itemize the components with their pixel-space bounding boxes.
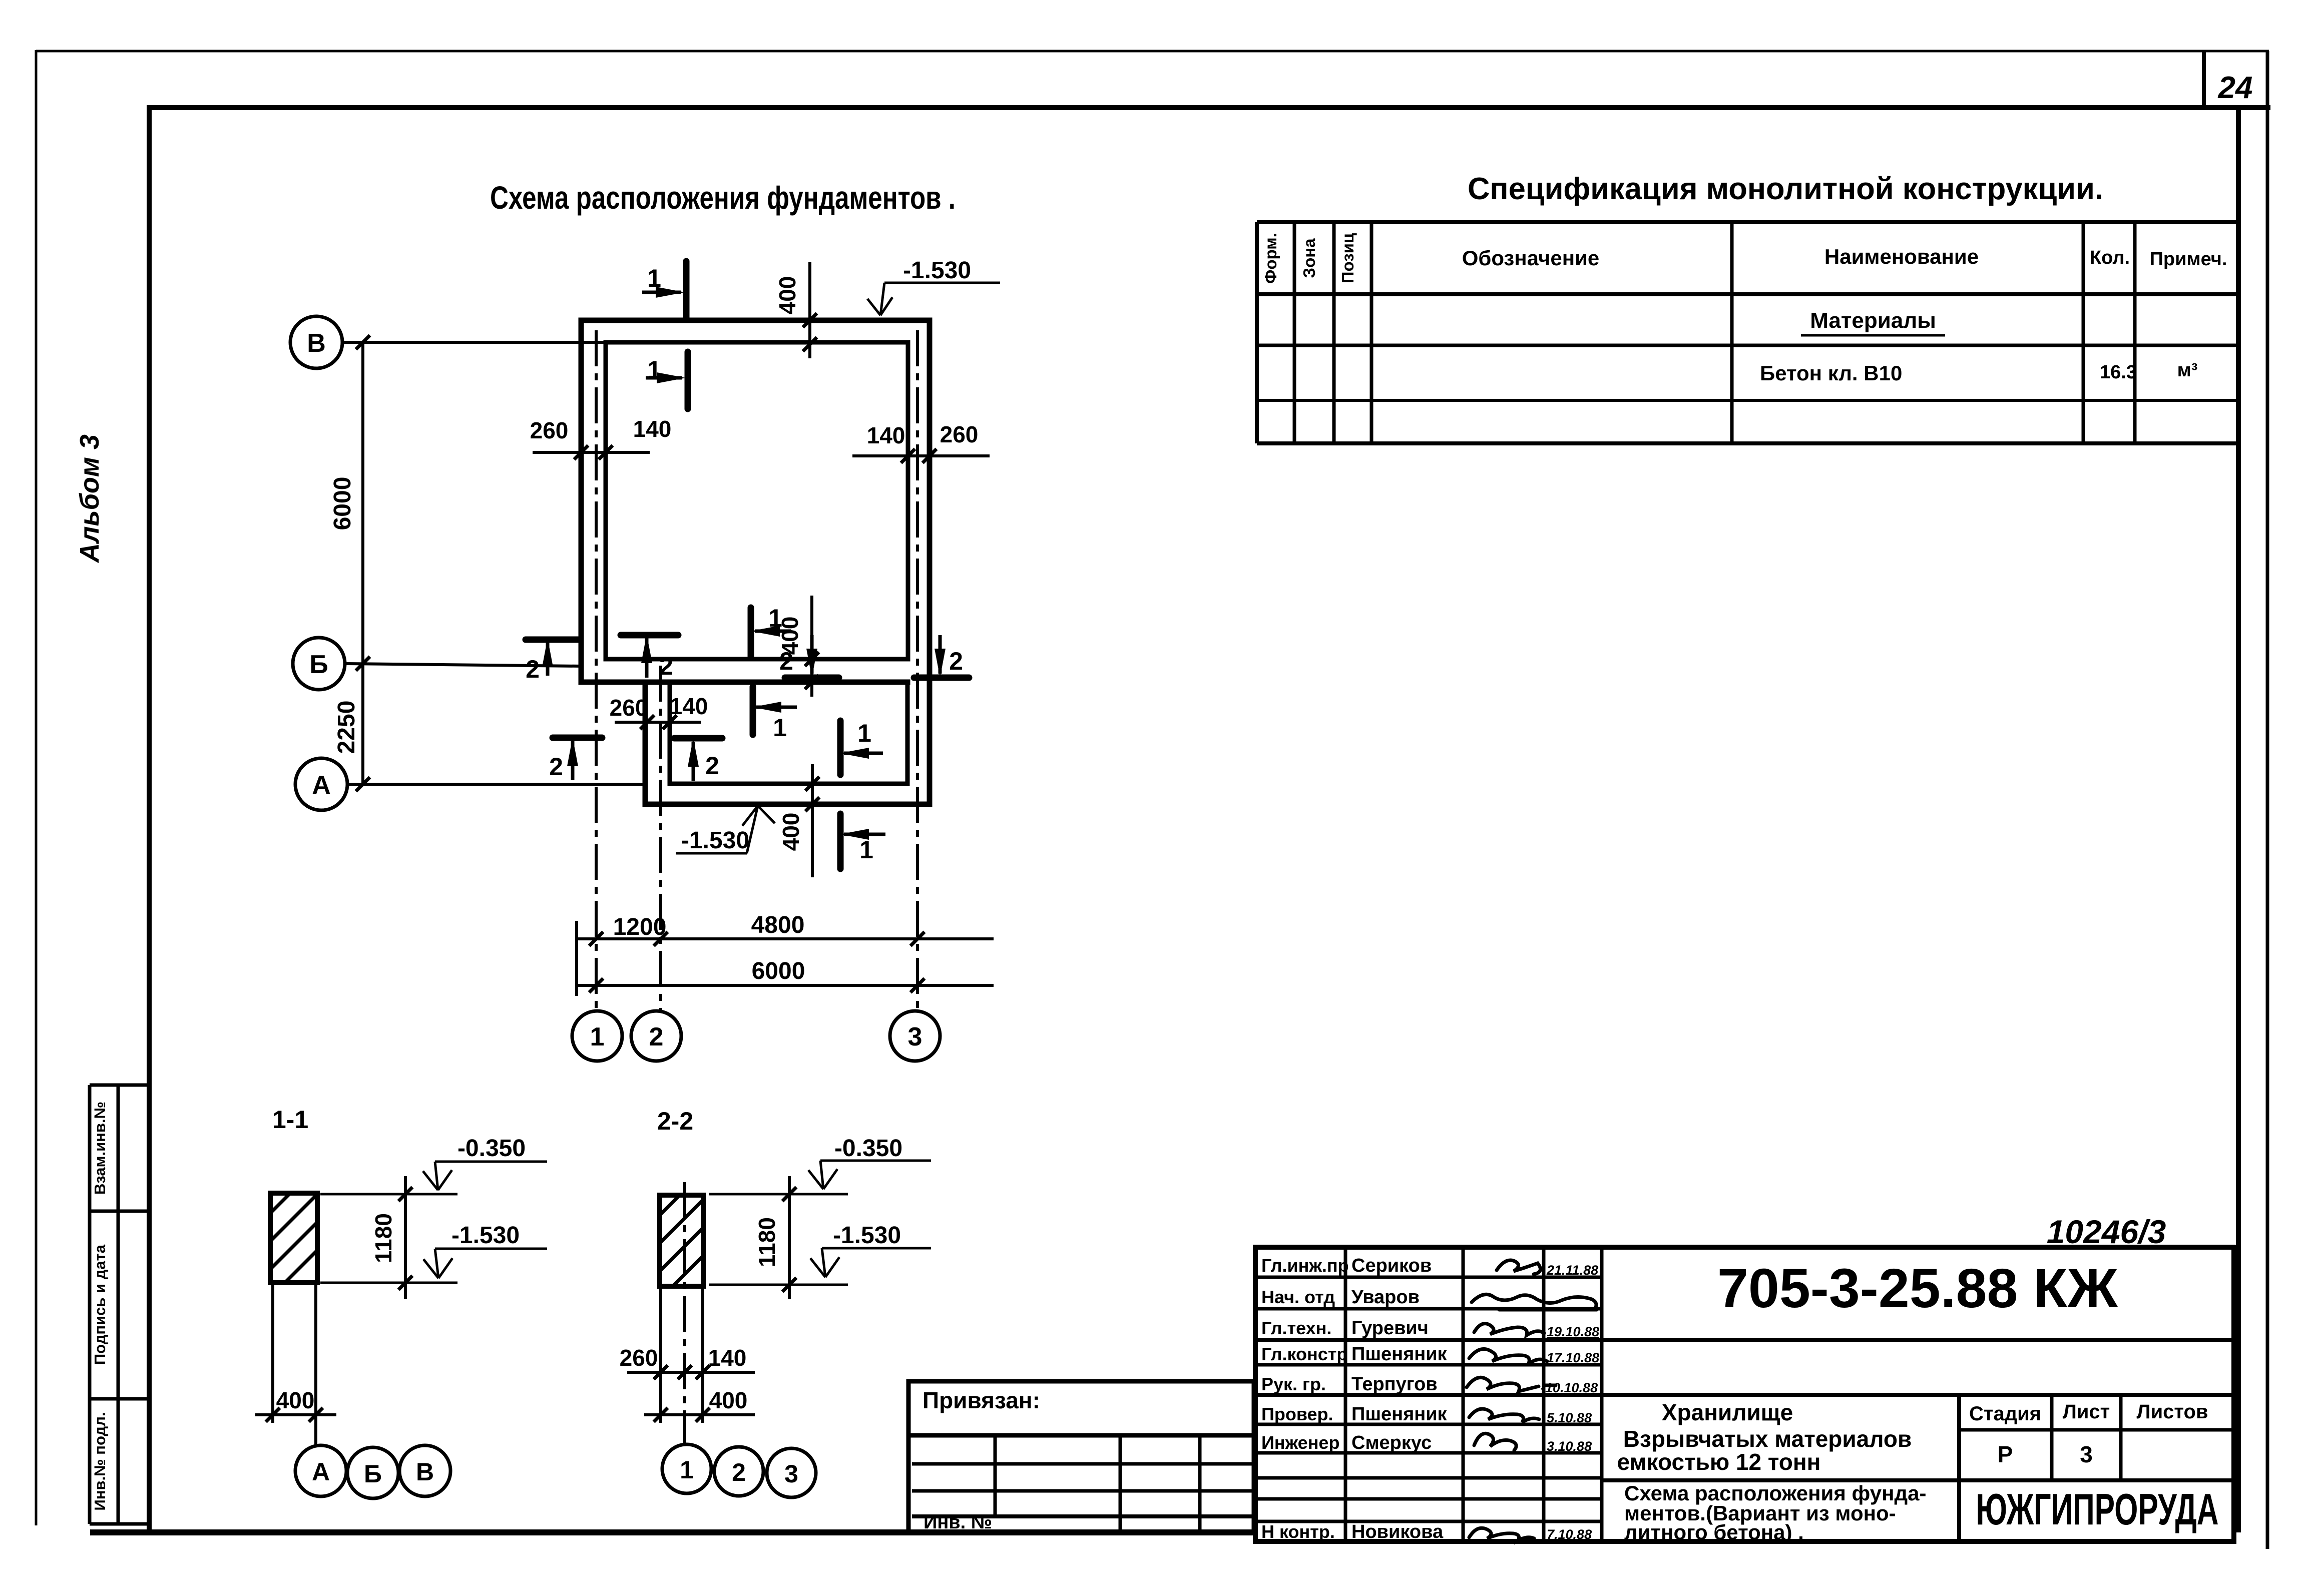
svg-text:1180: 1180 [370, 1213, 396, 1263]
top-left wall dim 260/140 [533, 451, 650, 454]
bottom wall 400 dim [811, 764, 814, 877]
section 2-2 axis line [683, 1182, 686, 1443]
title block frame [1255, 1247, 2234, 1541]
svg-text:-1.530: -1.530 [681, 827, 749, 854]
axis circle 1 [572, 1011, 622, 1061]
step wall dim 260/140 at axis 2 [615, 721, 701, 724]
svg-text:10246/3: 10246/3 [2047, 1213, 2166, 1250]
section 1-1 mark -0.350 [423, 1135, 547, 1190]
svg-text:2: 2 [649, 1022, 664, 1051]
svg-text:Р: Р [1998, 1441, 2013, 1467]
svg-text:Листов: Листов [2137, 1401, 2208, 1423]
section cut mark 2 (left inside) [621, 634, 678, 680]
section 2-2 mark -1.530 [810, 1222, 931, 1277]
svg-text:Рук. гр.: Рук. гр. [1261, 1374, 1326, 1394]
svg-text:260: 260 [530, 417, 569, 443]
signature flourish underlines [1547, 1277, 1599, 1541]
title block rows (left part) [1255, 1277, 1602, 1521]
svg-text:Уваров: Уваров [1351, 1287, 1420, 1308]
axis circle 2 [631, 1011, 681, 1061]
specification table grid [1257, 222, 2238, 443]
svg-text:Привязан:: Привязан: [923, 1387, 1040, 1413]
section cut mark 1 (lower room left) [752, 687, 797, 742]
svg-text:260: 260 [620, 1345, 658, 1371]
axis circle А [295, 758, 347, 810]
signatures [1467, 1260, 1597, 1540]
svg-text:260: 260 [610, 695, 648, 721]
svg-text:24: 24 [2218, 71, 2253, 105]
svg-text:140: 140 [670, 693, 708, 719]
svg-text:400: 400 [778, 813, 804, 851]
section 1-1 mark -1.530 [423, 1222, 547, 1278]
section cut mark 2 (right outside) [914, 635, 969, 678]
axis circle 3 [890, 1011, 940, 1061]
axis circle В [290, 316, 342, 368]
svg-text:1: 1 [859, 836, 873, 864]
svg-text:Смеркус: Смеркус [1351, 1432, 1432, 1453]
section cut mark 1 (top inside) [646, 352, 688, 409]
svg-text:Взам.инв.№: Взам.инв.№ [91, 1102, 109, 1195]
svg-text:-10.10.88: -10.10.88 [1541, 1380, 1598, 1395]
svg-text:А: А [312, 771, 331, 800]
svg-text:400: 400 [774, 276, 800, 315]
top wall 400 dim [808, 262, 811, 358]
svg-text:2: 2 [949, 647, 963, 675]
title block roles and names [1261, 1255, 1448, 1542]
svg-text:2: 2 [659, 652, 673, 680]
svg-text:1200: 1200 [613, 914, 667, 940]
svg-text:1: 1 [647, 356, 661, 384]
section 1-1 dim 400 [255, 1413, 336, 1416]
title block main splits [1255, 1340, 2234, 1541]
section cut mark 2 (lower left) [549, 737, 602, 781]
section 2-2 dim 400 [644, 1413, 755, 1416]
svg-text:Терпугов: Терпугов [1351, 1374, 1438, 1395]
section cut mark 1 (top outside) [642, 261, 686, 318]
section 2-2 level lines [709, 1194, 848, 1285]
section cut mark 1 (below wall) [840, 814, 885, 869]
bottom dim line 1200/4800 [577, 921, 994, 996]
svg-text:6000: 6000 [752, 958, 805, 984]
svg-text:1: 1 [647, 264, 661, 292]
svg-text:Альбом 3: Альбом 3 [75, 434, 105, 564]
axis line Б [345, 664, 581, 666]
svg-text:Гуревич: Гуревич [1351, 1318, 1429, 1339]
axis line 1 (dash-dot) [595, 330, 598, 1010]
svg-text:Б: Б [309, 650, 328, 679]
svg-text:2: 2 [526, 655, 540, 683]
svg-text:3: 3 [784, 1460, 798, 1488]
section cut mark 2 (left outside) [526, 638, 581, 683]
svg-text:140: 140 [633, 416, 672, 442]
svg-text:Взрывчатых материалов: Взрывчатых материалов [1623, 1426, 1912, 1452]
section cut mark 2 (right inside) [779, 635, 839, 678]
axis circle Б [293, 638, 345, 690]
svg-text:3: 3 [2080, 1441, 2093, 1467]
svg-text:Стадия: Стадия [1969, 1403, 2041, 1425]
svg-text:Нач. отд: Нач. отд [1261, 1287, 1335, 1307]
svg-text:260: 260 [940, 421, 979, 447]
svg-text:Схема расположения фундаменто: Схема расположения фундаментов . [490, 180, 956, 216]
section cut mark 2 (lower inside) [674, 738, 722, 781]
svg-text:Подпись и дата: Подпись и дата [91, 1244, 109, 1365]
section 1-1 extension lines [273, 1283, 316, 1445]
vertical dim line 6000/2250 [361, 342, 364, 784]
section cut mark 1 (room bottom) [751, 604, 791, 658]
svg-text:Примеч.: Примеч. [2150, 249, 2227, 270]
svg-text:Обозначение: Обозначение [1462, 246, 1600, 270]
svg-text:3.10.88: 3.10.88 [1547, 1439, 1592, 1454]
svg-text:ЮЖГИПРОРУДА: ЮЖГИПРОРУДА [1976, 1484, 2219, 1534]
section 1-1 dim 1180 [404, 1176, 407, 1299]
svg-text:2250: 2250 [333, 701, 360, 754]
axis line 2 (dash-dot) [659, 666, 662, 1010]
title block columns [1345, 1247, 1602, 1541]
svg-text:140: 140 [708, 1345, 747, 1371]
section 2-2 axis circles 1 2 3 [662, 1444, 711, 1493]
section 2-2 extension lines [661, 1286, 703, 1423]
svg-text:А: А [312, 1458, 330, 1486]
svg-text:-1.530: -1.530 [451, 1222, 520, 1249]
svg-text:емкостью 12 тонн: емкостью 12 тонн [1617, 1449, 1821, 1475]
svg-text:140: 140 [867, 422, 905, 448]
svg-text:1: 1 [773, 714, 787, 742]
svg-text:Зона: Зона [1300, 238, 1318, 278]
svg-text:Провер.: Провер. [1261, 1404, 1333, 1424]
elevation mark -1.530 (top right) [867, 257, 1000, 315]
svg-text:5.10.88: 5.10.88 [1547, 1410, 1592, 1425]
left margin stamp boxes [90, 1085, 149, 1524]
svg-text:Хранилище: Хранилище [1662, 1399, 1793, 1425]
svg-text:литного бетона) .: литного бетона) . [1624, 1520, 1804, 1544]
Привязан table [908, 1381, 1254, 1532]
svg-text:2: 2 [732, 1458, 746, 1486]
top-right wall dim 140/260 [852, 454, 990, 457]
svg-text:Лист: Лист [2063, 1401, 2110, 1423]
section 2-2 mark -0.350 [808, 1135, 931, 1189]
svg-text:Инженер: Инженер [1261, 1432, 1339, 1453]
svg-text:400: 400 [709, 1387, 748, 1413]
svg-text:В: В [307, 329, 326, 358]
svg-text:3: 3 [908, 1022, 923, 1051]
axis line В [342, 341, 606, 344]
title block dates [1541, 1263, 1599, 1542]
svg-text:Кол.: Кол. [2090, 247, 2130, 268]
svg-text:1180: 1180 [754, 1217, 780, 1267]
svg-text:1: 1 [680, 1456, 694, 1484]
svg-text:Пшеняник: Пшеняник [1351, 1344, 1448, 1365]
svg-text:Сериков: Сериков [1351, 1255, 1432, 1276]
svg-text:1-1: 1-1 [272, 1106, 308, 1134]
svg-text:2-2: 2-2 [657, 1107, 693, 1135]
svg-text:4800: 4800 [751, 912, 805, 938]
svg-text:705-3-25.88 КЖ: 705-3-25.88 КЖ [1717, 1258, 2118, 1319]
svg-text:2: 2 [549, 753, 563, 781]
svg-text:1: 1 [768, 604, 782, 632]
svg-text:400: 400 [276, 1387, 315, 1413]
section 1-1 axis circles А Б В [295, 1445, 346, 1496]
svg-text:Гл.констр: Гл.констр [1261, 1344, 1347, 1364]
svg-text:6000: 6000 [329, 477, 356, 530]
svg-text:В: В [416, 1458, 434, 1486]
section 2-2 dim 1180 [788, 1176, 791, 1299]
axis line А [347, 783, 645, 786]
section 2-2 dim 260/140 [627, 1371, 755, 1374]
svg-text:-1.530: -1.530 [903, 257, 971, 284]
svg-text:Спецификация монолитной констр: Спецификация монолитной конструкции. [1468, 172, 2103, 206]
svg-text:-1.530: -1.530 [833, 1222, 901, 1249]
svg-text:Пшеняник: Пшеняник [1351, 1404, 1448, 1425]
plan: big room inner wall face [606, 342, 908, 659]
svg-text:1: 1 [590, 1022, 605, 1051]
svg-text:Б: Б [364, 1460, 382, 1488]
svg-text:Позиц: Позиц [1338, 233, 1357, 283]
svg-text:Н контр.: Н контр. [1261, 1521, 1335, 1542]
plan: lower room inner wall face [670, 682, 907, 784]
svg-text:-0.350: -0.350 [457, 1135, 526, 1162]
svg-text:м³: м³ [2177, 360, 2198, 381]
mid wall 400 dim [810, 596, 813, 697]
svg-text:Наименование: Наименование [1824, 245, 1979, 268]
svg-text:Форм.: Форм. [1261, 233, 1280, 284]
section cut mark 1 (lower room right) [840, 719, 883, 775]
svg-text:16.3: 16.3 [2100, 362, 2137, 383]
svg-text:-0.350: -0.350 [834, 1135, 902, 1162]
svg-text:2: 2 [705, 752, 719, 780]
svg-text:2: 2 [779, 647, 793, 675]
section 1-1 level lines [320, 1194, 457, 1283]
svg-text:Гл.техн.: Гл.техн. [1261, 1318, 1331, 1338]
sheet number box [2202, 52, 2206, 108]
svg-text:Бетон кл. В10: Бетон кл. В10 [1760, 361, 1902, 385]
elevation mark -1.530 (below plan) [676, 806, 775, 854]
svg-text:Материалы: Материалы [1810, 308, 1936, 333]
plan: outer wall contour [581, 320, 930, 804]
svg-text:Новикова: Новикова [1351, 1521, 1444, 1542]
svg-text:Инв.№ подл.: Инв.№ подл. [91, 1412, 109, 1510]
svg-text:Гл.инж.пр: Гл.инж.пр [1261, 1255, 1349, 1276]
svg-text:1: 1 [857, 719, 871, 747]
svg-text:Инв. №: Инв. № [924, 1512, 992, 1533]
axis line 3 (dash-dot) [916, 330, 919, 1010]
